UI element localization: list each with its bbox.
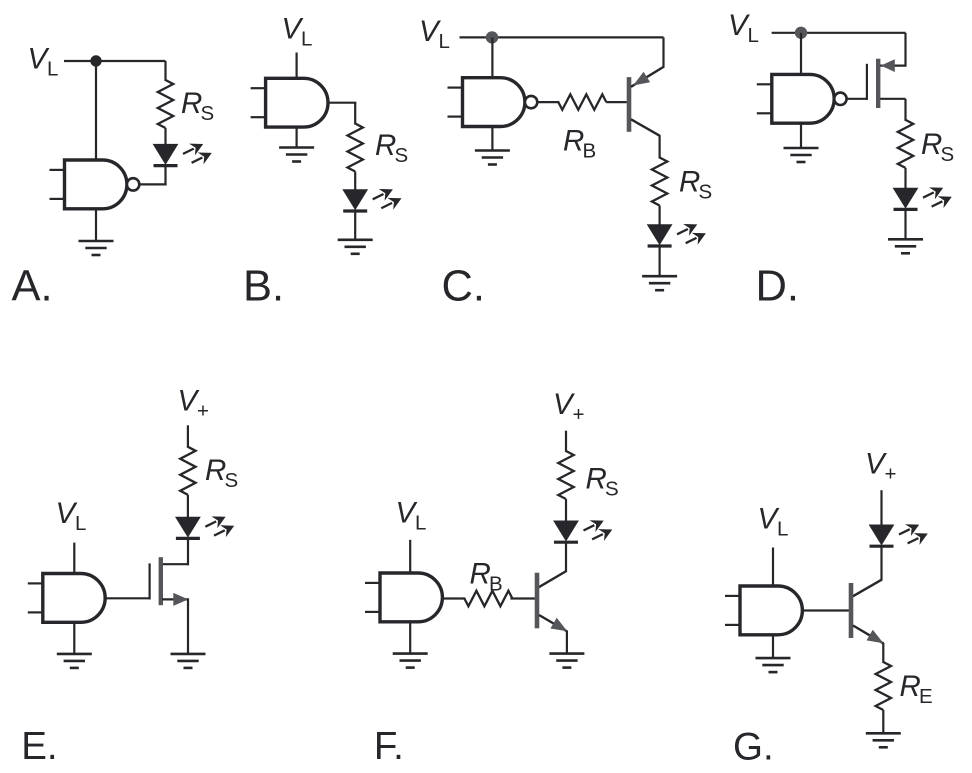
wire VL to gate power pin (B) (296, 53, 298, 80)
wire VL to gate power pin (F) (409, 540, 411, 574)
wire LED to collector corner (F) (565, 542, 567, 571)
wire VL to gate power pin (G) (772, 548, 774, 588)
wire RB to base (C) (606, 101, 627, 103)
and gate U5 (E) (28, 574, 105, 623)
ground (A gate) (79, 241, 114, 255)
wire VL horizontal (A) (64, 60, 166, 62)
resistor RB (F) (464, 591, 512, 606)
svg-text:C.: C. (442, 263, 486, 311)
wire RE to ground (G) (882, 710, 884, 733)
wire gate ground pin (C) (491, 127, 493, 151)
wire RS to LED (F) (565, 499, 567, 522)
junction dot (A) (90, 55, 101, 66)
transistor Q1 PNP base bar (C) (627, 77, 632, 132)
wire Q1 emitter vertical to rail (C) (662, 37, 664, 67)
wire Q4 collector diagonal (F) (539, 571, 567, 587)
wire nand output to mosfet gate (D) (847, 98, 868, 100)
wire Q4 emitter diagonal (F) (539, 615, 567, 632)
LED D1 (A) (154, 144, 178, 165)
wire VL horizontal rail (D) (772, 32, 906, 34)
resistor RS (E) (180, 447, 195, 495)
wire source rail vertical (D) (904, 33, 906, 67)
svg-text:R: R (563, 125, 584, 158)
ground (E mosfet) (171, 654, 206, 668)
wire LED to ground (D) (904, 210, 906, 240)
label RS (E) (205, 454, 238, 492)
wire Q5 collector diagonal (G) (853, 579, 883, 596)
LED light arrows (A) (183, 144, 212, 165)
LED D3 (C) (648, 225, 672, 246)
wire V+ to LED (G) (880, 490, 882, 526)
wire emitter to ground (F) (566, 631, 568, 654)
wire VL to gate power pin (D) (800, 33, 802, 76)
node V+ supply label (circuit G) (865, 448, 896, 486)
label RS (F) (586, 462, 619, 500)
wire RS to LED (A) (164, 128, 166, 145)
and gate U2 (B) (251, 78, 328, 127)
wire and output to RB (F) (442, 597, 465, 599)
junction dot (C) (486, 31, 498, 43)
wire VL to gate power pin (C) (491, 37, 493, 78)
resistor RS (D) (898, 120, 913, 168)
node VL supply label (circuit D) (728, 9, 759, 47)
wire RS to LED (B) (354, 172, 356, 191)
wire Q1 emitter diagonal (C) (631, 67, 664, 87)
svg-text:S: S (699, 180, 713, 203)
label RS (B) (375, 129, 408, 167)
svg-text:E.: E. (21, 725, 57, 768)
and gate U7 (G) (725, 586, 802, 635)
svg-text:+: + (197, 400, 209, 423)
wire RS to LED (D) (904, 168, 906, 189)
node VL supply label (circuit B) (282, 12, 313, 50)
ground (B LED) (338, 240, 373, 254)
LED D2 (B) (343, 190, 367, 211)
Q3 source arrow n-channel (E) (173, 593, 188, 606)
wire gate ground pin (E) (73, 622, 75, 654)
svg-text:R: R (205, 454, 226, 487)
node VL supply label (circuit E) (56, 497, 87, 535)
wire LED cathode down (A) (164, 166, 166, 186)
ground (D gate) (784, 148, 819, 162)
wire gate ground pin (A) (95, 209, 97, 241)
wire Q1 collector vertical (C) (658, 135, 660, 158)
label RS (D) (921, 128, 954, 166)
wire LED to ground (B) (354, 211, 356, 240)
svg-text:S: S (605, 477, 619, 500)
node VL supply label (circuit C) (419, 15, 450, 53)
node V+ supply label (circuit F) (553, 388, 584, 426)
LED light arrows (F) (584, 520, 613, 541)
wire RB to base (F) (510, 597, 534, 599)
node VL supply label (circuit G) (758, 503, 789, 541)
resistor RS (B) (348, 124, 363, 172)
wire VL to gate power pin (E) (73, 543, 75, 575)
label RB (C) (563, 125, 596, 163)
resistor RB (C) (558, 94, 606, 109)
wire RS to LED (C) (658, 206, 660, 226)
svg-text:S: S (941, 143, 955, 166)
wire Q1 collector diagonal (C) (631, 119, 660, 136)
label RS (A) (181, 87, 214, 125)
ground (F gate) (393, 654, 428, 668)
LED D4 (D) (894, 188, 918, 209)
wire V+ to RS (E) (187, 425, 189, 448)
ground (E gate) (57, 654, 92, 668)
svg-text:G.: G. (733, 726, 774, 769)
wire and output to base (G) (802, 609, 849, 611)
mosfet Q3 channel bar (E) (159, 557, 163, 605)
label RB (F) (470, 558, 503, 596)
wire RS to LED (E) (187, 495, 189, 518)
wire nand output to RB (C) (537, 101, 559, 103)
svg-text:+: + (885, 463, 897, 486)
ground (B gate) (279, 148, 314, 162)
label RS (C) (679, 165, 712, 203)
Q1 emitter arrow PNP (C) (633, 72, 650, 86)
svg-text:R: R (900, 670, 921, 703)
ground (F emitter) (549, 654, 584, 668)
wire output corner down (B) (354, 103, 356, 125)
wire Q2 source top (D) (880, 64, 905, 66)
wire gate ground pin (G) (772, 635, 774, 658)
wire gate ground pin (D) (800, 123, 802, 148)
wire Q3 source bottom (E) (162, 598, 188, 600)
nand gate U3 (C) (448, 78, 538, 127)
svg-text:L: L (439, 30, 450, 53)
svg-text:L: L (777, 518, 788, 541)
node VL supply label (circuit F) (396, 497, 427, 535)
wire V+ to RS (F) (565, 431, 567, 452)
wire LED to mosfet drain (E) (187, 539, 189, 566)
LED light arrows (B) (373, 189, 402, 210)
svg-text:R: R (921, 128, 942, 161)
LED light arrows (G) (899, 524, 928, 545)
wire VL to gate power pin (A) (95, 61, 97, 161)
svg-text:S: S (395, 144, 409, 167)
LED light arrows (E) (205, 516, 234, 537)
wire source to ground (E) (187, 598, 189, 654)
transistor Q5 NPN base bar (G) (849, 583, 854, 638)
svg-text:B: B (489, 573, 503, 596)
ground (G gate) (756, 658, 791, 672)
LED D5 (E) (176, 517, 200, 538)
svg-text:R: R (375, 129, 396, 162)
svg-text:A.: A. (12, 263, 53, 311)
wire drain to RS (D) (904, 99, 906, 121)
svg-text:F.: F. (374, 725, 404, 768)
mosfet Q2 gate line (D) (866, 64, 868, 100)
nand gate U4 (D) (757, 74, 847, 123)
resistor RS (F) (558, 451, 573, 499)
Q5 emitter arrow NPN (G) (867, 630, 884, 644)
ground (C gate) (475, 151, 510, 165)
resistor RS (A) (158, 80, 173, 128)
LED light arrows (C) (677, 224, 706, 245)
svg-text:R: R (586, 462, 607, 495)
svg-text:+: + (573, 403, 585, 426)
transistor Q4 NPN base bar (F) (535, 573, 540, 629)
wire LED to ground (C) (658, 246, 660, 276)
resistor RS (C) (652, 158, 667, 206)
junction dot (D) (795, 27, 807, 39)
label RE (G) (900, 670, 933, 708)
ground (D LED) (888, 239, 923, 253)
wire gate ground pin (B) (296, 127, 298, 148)
wire RS top (A) (164, 61, 166, 81)
LED D6 (F) (554, 521, 578, 542)
wire Q3 drain top (E) (162, 563, 188, 565)
svg-text:B: B (583, 140, 597, 163)
wire and output (B) (328, 102, 356, 104)
mosfet Q2 channel bar (D) (876, 59, 880, 108)
svg-text:E: E (919, 685, 933, 708)
wire Q2 drain bottom (D) (880, 98, 905, 100)
Q4 emitter arrow NPN (F) (550, 618, 567, 632)
svg-text:L: L (301, 27, 312, 50)
ground (C LED) (642, 276, 677, 290)
wire and output to mosfet gate (E) (105, 597, 150, 599)
svg-text:S: S (201, 102, 215, 125)
wire VL horizontal rail (C) (460, 36, 664, 38)
wire gate ground pin (F) (409, 622, 411, 654)
wire LED to collector corner (G) (880, 546, 882, 580)
svg-text:L: L (47, 57, 58, 80)
svg-text:R: R (679, 165, 700, 198)
ground (G emitter) (866, 733, 901, 747)
svg-text:R: R (181, 87, 202, 120)
Q2 source arrow p-channel (D) (881, 59, 895, 72)
svg-text:D.: D. (756, 263, 800, 311)
and gate U6 (F) (365, 573, 442, 622)
mosfet Q3 gate line (E) (149, 563, 151, 599)
svg-text:L: L (748, 24, 759, 47)
wire Q5 emitter diagonal (G) (853, 626, 884, 644)
LED D7 (G) (870, 525, 894, 546)
svg-text:L: L (75, 512, 86, 535)
svg-text:R: R (470, 558, 491, 591)
svg-text:B.: B. (243, 263, 284, 311)
LED light arrows (D) (923, 187, 952, 208)
svg-text:L: L (415, 512, 426, 535)
resistor RE (G) (876, 662, 891, 710)
nand gate U1 (A) (50, 160, 140, 209)
svg-text:S: S (225, 469, 239, 492)
node VL supply label (circuit A) (28, 42, 59, 80)
wire emitter to RE (G) (882, 643, 884, 663)
wire nand output to LED cathode (A) (139, 183, 166, 185)
node V+ supply label (circuit E) (178, 385, 209, 423)
